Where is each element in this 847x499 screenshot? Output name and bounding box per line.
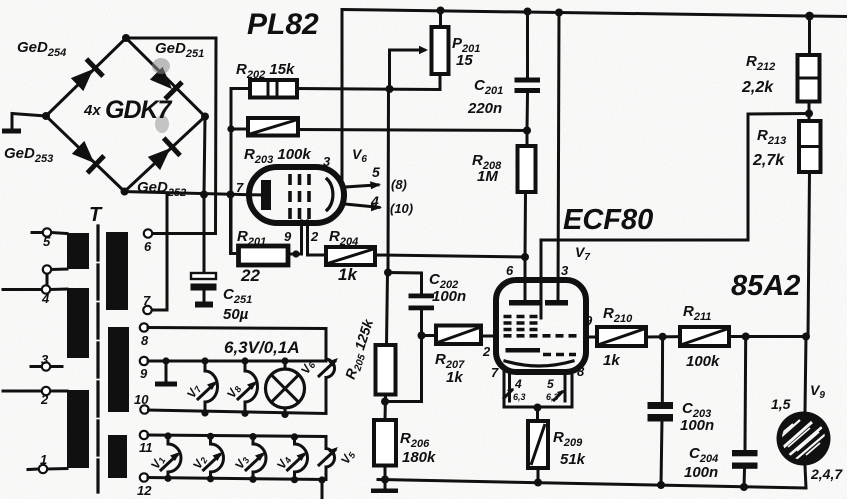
- svg-text:9: 9: [140, 366, 148, 381]
- svg-text:6: 6: [144, 239, 152, 254]
- svg-text:100n: 100n: [684, 464, 718, 481]
- svg-text:2: 2: [40, 392, 49, 407]
- svg-text:1k: 1k: [338, 265, 358, 284]
- svg-text:50µ: 50µ: [223, 306, 249, 323]
- svg-text:2,4,7: 2,4,7: [810, 466, 843, 482]
- svg-text:2,7k: 2,7k: [752, 152, 785, 169]
- svg-text:4x: 4x: [83, 102, 101, 119]
- svg-text:10: 10: [134, 392, 149, 407]
- svg-text:3: 3: [323, 154, 331, 169]
- svg-text:3: 3: [561, 263, 569, 278]
- svg-text:5: 5: [43, 234, 51, 249]
- svg-text:9: 9: [585, 313, 593, 328]
- svg-text:5: 5: [372, 164, 380, 180]
- svg-text:1M: 1M: [477, 168, 498, 185]
- svg-text:8: 8: [141, 333, 149, 348]
- svg-text:85A2: 85A2: [731, 270, 800, 302]
- svg-text:4: 4: [370, 193, 379, 209]
- svg-text:220n: 220n: [467, 100, 502, 117]
- svg-text:11: 11: [139, 440, 153, 455]
- svg-text:2: 2: [310, 229, 319, 244]
- svg-text:GDK7: GDK7: [105, 96, 173, 124]
- svg-text:100n: 100n: [680, 417, 714, 434]
- svg-text:22: 22: [240, 266, 260, 285]
- svg-text:ECF80: ECF80: [563, 204, 653, 236]
- svg-text:3: 3: [41, 352, 49, 367]
- svg-text:6,3V/0,1A: 6,3V/0,1A: [224, 338, 300, 357]
- svg-text:100k: 100k: [686, 353, 720, 370]
- svg-text:180k: 180k: [402, 449, 436, 466]
- svg-text:12: 12: [137, 483, 152, 498]
- svg-text:15: 15: [456, 52, 473, 69]
- svg-text:7: 7: [143, 293, 151, 308]
- svg-text:(8): (8): [391, 177, 407, 192]
- svg-text:7: 7: [236, 180, 244, 195]
- svg-text:100n: 100n: [432, 288, 466, 305]
- svg-text:1k: 1k: [446, 369, 463, 386]
- svg-text:5: 5: [547, 377, 554, 391]
- svg-text:8: 8: [577, 364, 585, 379]
- svg-text:T: T: [89, 204, 103, 226]
- svg-text:4: 4: [41, 291, 50, 306]
- svg-text:51k: 51k: [560, 451, 586, 468]
- svg-text:1k: 1k: [603, 352, 620, 369]
- svg-text:2,2k: 2,2k: [741, 79, 774, 96]
- svg-text:1: 1: [40, 452, 47, 467]
- svg-text:9: 9: [284, 229, 292, 244]
- svg-text:(10): (10): [390, 201, 413, 216]
- svg-text:PL82: PL82: [247, 8, 319, 41]
- svg-text:6: 6: [506, 263, 514, 278]
- svg-text:6,3: 6,3: [513, 392, 526, 402]
- svg-text:4: 4: [514, 377, 522, 391]
- svg-text:1,5: 1,5: [771, 396, 791, 412]
- svg-text:2: 2: [482, 344, 491, 359]
- svg-text:7: 7: [491, 365, 499, 380]
